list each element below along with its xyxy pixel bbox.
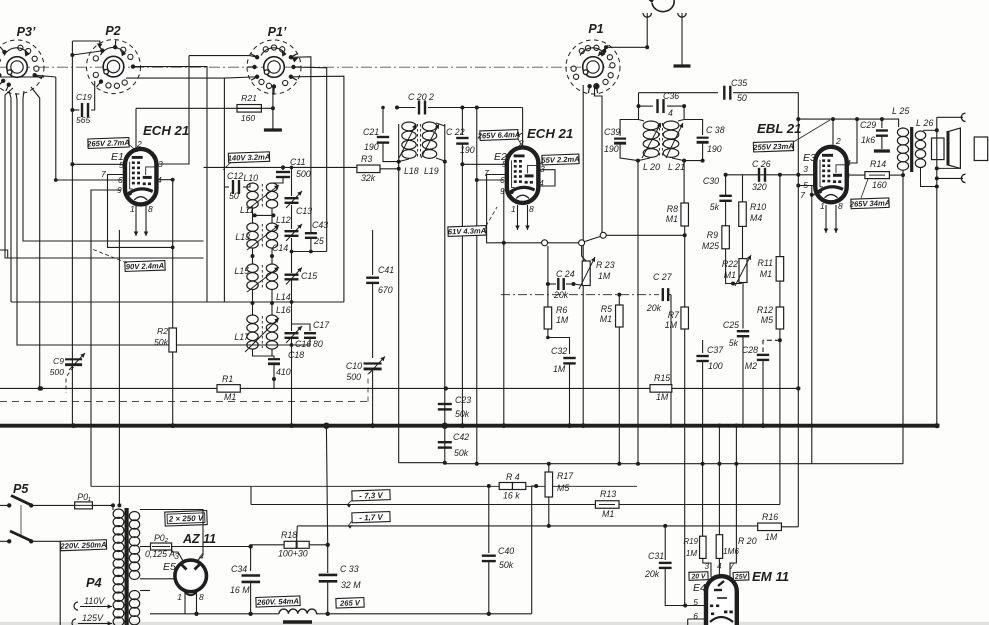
wire P2 left pin corner	[70, 53, 74, 57]
svg-text:61V 4.3mA: 61V 4.3mA	[448, 226, 487, 236]
wire P1' left pin row	[250, 56, 257, 58]
resistor R1	[217, 385, 240, 393]
capacitor C25	[742, 283, 744, 329]
left edge bracket	[0, 250, 8, 258]
svg-text:L14: L14	[276, 292, 291, 302]
wire HV top to E5 pin4	[140, 510, 203, 562]
svg-text:16 k: 16 k	[503, 491, 520, 501]
svg-text:R2: R2	[157, 326, 168, 336]
wire speaker lower lead	[937, 167, 961, 169]
capacitor C20.2	[418, 101, 420, 115]
gang link dashed line	[0, 401, 368, 403]
wire antenna to P1	[606, 46, 647, 48]
wire E2 pin6	[477, 179, 503, 181]
svg-text:E3: E3	[803, 152, 816, 164]
wire P3' fan to vertical rails	[5, 88, 204, 258]
svg-text:P1: P1	[588, 22, 603, 36]
capacitor C34	[250, 547, 252, 572]
svg-text:R13: R13	[600, 489, 616, 499]
svg-text:1M: 1M	[686, 549, 697, 558]
svg-text:3: 3	[540, 164, 545, 174]
svg-text:C43: C43	[312, 220, 328, 230]
svg-text:L12: L12	[276, 215, 291, 225]
svg-text:C30: C30	[703, 176, 719, 186]
capacitor C27	[501, 294, 659, 296]
svg-text:R17: R17	[557, 471, 574, 481]
svg-text:R12: R12	[757, 305, 773, 315]
wire E2 pin5	[462, 163, 507, 165]
chassis bus	[0, 424, 940, 428]
resistor R20	[718, 426, 720, 535]
svg-text:110V: 110V	[84, 596, 105, 606]
svg-text:L15: L15	[234, 266, 249, 276]
capacitor C35	[723, 86, 725, 100]
svg-text:E4: E4	[693, 582, 706, 594]
svg-text:C16: C16	[295, 339, 311, 349]
svg-text:C15: C15	[301, 271, 317, 281]
svg-text:R10: R10	[750, 202, 766, 212]
wire E2 pin2	[522, 108, 524, 148]
wire C27 down to bus	[664, 296, 666, 426]
bubble connector line	[504, 242, 542, 244]
svg-text:C25: C25	[723, 320, 739, 330]
svg-text:1M: 1M	[553, 364, 566, 374]
svg-text:500: 500	[50, 367, 65, 377]
tube E2 ECH21	[507, 147, 538, 203]
ground below R21	[264, 128, 282, 131]
svg-text:1M: 1M	[765, 532, 778, 542]
svg-text:C 22: C 22	[446, 127, 465, 137]
svg-text:32k: 32k	[361, 173, 376, 183]
coil stack joints 1	[252, 208, 254, 223]
svg-text:L 26: L 26	[916, 118, 933, 128]
transformer HV secondary	[129, 511, 139, 520]
svg-text:R 20: R 20	[738, 536, 757, 546]
svg-text:E5: E5	[163, 561, 176, 573]
wire x780 to R13 line	[700, 504, 780, 506]
capacitor C18	[253, 349, 275, 358]
wire C19 node vertical	[71, 41, 73, 426]
svg-text:25V: 25V	[734, 573, 749, 581]
svg-text:255V 23mA: 255V 23mA	[752, 142, 794, 152]
capacitor C26	[758, 168, 760, 182]
svg-text:3: 3	[158, 159, 163, 169]
svg-text:L16: L16	[276, 305, 291, 315]
svg-text:C35: C35	[731, 78, 747, 88]
svg-text:M1: M1	[600, 314, 612, 324]
svg-text:C36: C36	[663, 91, 679, 101]
resistor R14	[865, 172, 890, 179]
svg-text:EM 11: EM 11	[752, 569, 789, 584]
wire secondary bottom jog	[921, 167, 937, 187]
measure box 255V 23mA	[752, 141, 794, 152]
svg-text:160: 160	[241, 113, 256, 123]
svg-text:P0₂: P0₂	[154, 533, 169, 543]
resistor R5	[618, 295, 620, 305]
IF2 core dashes	[659, 123, 661, 156]
svg-text:C40: C40	[498, 546, 514, 556]
svg-text:16 M: 16 M	[230, 585, 250, 595]
svg-text:260V. 54mA: 260V. 54mA	[256, 597, 299, 607]
svg-text:C37: C37	[707, 345, 724, 355]
fuse P02 line	[140, 546, 151, 548]
svg-text:670: 670	[378, 285, 393, 295]
svg-text:R 23: R 23	[596, 260, 615, 270]
svg-text:C42: C42	[453, 432, 469, 442]
resistor R6	[544, 307, 552, 329]
heater arrows E1	[135, 205, 137, 236]
tube E3 EBL21	[815, 147, 847, 203]
tube E5 AZ11	[175, 560, 207, 592]
capacitor C43	[310, 232, 312, 233]
svg-text:ECH 21: ECH 21	[143, 123, 189, 138]
svg-text:190: 190	[707, 144, 722, 154]
transformer core	[124, 508, 128, 625]
svg-text:C39: C39	[604, 127, 620, 137]
svg-text:3: 3	[704, 562, 709, 571]
speaker	[932, 138, 945, 160]
capacitor C37	[702, 340, 704, 353]
capacitor C24	[546, 282, 550, 286]
wire osc rail x189	[157, 56, 190, 164]
resistor R15	[650, 385, 672, 393]
heater arrows E3	[825, 205, 827, 233]
capacitor C30	[725, 175, 727, 195]
resistor R2	[169, 328, 177, 352]
svg-text:90V 2.4mA: 90V 2.4mA	[126, 261, 165, 271]
svg-text:ECH 21: ECH 21	[527, 126, 573, 141]
svg-text:M1: M1	[724, 270, 736, 280]
wire C11 node line	[204, 166, 357, 168]
wire fuse to E5 pin3	[172, 547, 183, 562]
wire pin6 EM11	[688, 618, 706, 620]
svg-text:P0₁: P0₁	[77, 492, 91, 502]
svg-text:8: 8	[838, 201, 843, 211]
IF2 bottom joints	[636, 159, 640, 163]
measure box 265V 2.7mA	[86, 138, 130, 149]
resistor R8	[683, 161, 685, 203]
svg-text:C 27: C 27	[653, 272, 673, 282]
svg-text:125V: 125V	[82, 613, 104, 623]
capacitor C9 variable	[65, 358, 82, 360]
wire heater-bias line y486	[91, 485, 637, 487]
svg-text:5: 5	[119, 160, 124, 170]
IF1 core dashes	[417, 124, 419, 157]
resistor R12	[779, 281, 781, 307]
svg-text:P2: P2	[105, 24, 120, 38]
svg-text:L17: L17	[234, 332, 250, 342]
svg-text:M1: M1	[602, 509, 614, 519]
svg-text:C29: C29	[860, 120, 876, 130]
svg-text:1M: 1M	[656, 392, 669, 402]
measure box 90V 2.4mA	[125, 261, 165, 272]
svg-text:50k: 50k	[454, 448, 469, 458]
measure box 140V 3.2mA	[228, 152, 271, 163]
B+ line to output transformer	[798, 118, 882, 120]
svg-text:C 26: C 26	[752, 159, 771, 169]
svg-text:500: 500	[296, 169, 311, 179]
wire E2 pin3 pin4 stubs	[538, 170, 555, 186]
wire mains lower	[31, 541, 60, 625]
coil L21	[678, 120, 684, 122]
svg-text:190: 190	[604, 144, 619, 154]
svg-text:R11: R11	[758, 258, 774, 268]
box 20V	[689, 572, 708, 581]
wire E1 plate up-over	[135, 108, 137, 148]
svg-text:1M: 1M	[556, 315, 569, 325]
wire R6 branch	[547, 246, 549, 307]
terminal hook lower	[961, 174, 965, 182]
capacitor C19	[72, 109, 79, 111]
svg-text:C9: C9	[53, 356, 64, 366]
svg-text:R1: R1	[222, 374, 233, 384]
resistor R19	[702, 464, 704, 537]
svg-text:C13: C13	[296, 206, 312, 216]
AVC line	[0, 387, 217, 389]
wire x327 vertical	[326, 426, 327, 545]
wire P3' pin down to E1 grid	[56, 77, 121, 180]
box 25V	[733, 572, 749, 581]
svg-text:P1’: P1’	[268, 25, 287, 39]
svg-text:C31: C31	[648, 551, 664, 561]
svg-text:140V 3.2mA: 140V 3.2mA	[228, 152, 271, 162]
capacitor C31	[664, 526, 666, 560]
svg-text:R18: R18	[281, 530, 297, 540]
wire E1 pin4	[157, 180, 173, 426]
output transformer core	[910, 127, 913, 172]
svg-text:R7: R7	[668, 310, 680, 320]
svg-text:7: 7	[101, 169, 106, 179]
svg-text:M5: M5	[761, 315, 773, 325]
terminal hook top	[961, 113, 965, 121]
svg-text:50: 50	[737, 93, 747, 103]
svg-text:265V 34mA: 265V 34mA	[849, 198, 891, 208]
heater arrows E2	[517, 205, 519, 230]
wire HV bottom	[140, 572, 174, 579]
svg-text:2 × 250 V: 2 × 250 V	[168, 514, 204, 524]
wire L18 vertical down	[398, 169, 400, 463]
svg-text:100+30: 100+30	[278, 549, 308, 559]
svg-text:8: 8	[529, 204, 534, 214]
svg-text:265V 2.7mA: 265V 2.7mA	[86, 138, 130, 149]
svg-text:M5: M5	[557, 483, 569, 493]
svg-text:100: 100	[708, 361, 723, 371]
capacitor C41	[372, 230, 374, 275]
capacitor C17	[292, 324, 311, 331]
wire E3 pin2	[832, 119, 834, 147]
svg-text:M2: M2	[745, 361, 757, 371]
resistor R3	[357, 165, 380, 173]
svg-text:1: 1	[177, 592, 182, 602]
svg-text:410: 410	[276, 367, 291, 377]
svg-text:C 20 2: C 20 2	[408, 92, 434, 102]
wire E5 cathode down	[184, 592, 186, 614]
transformer heater secondary	[129, 591, 139, 600]
svg-text:EBL 21: EBL 21	[757, 121, 801, 136]
svg-text:C19: C19	[76, 92, 92, 102]
wire C26 line pin3	[726, 174, 816, 176]
svg-text:C34: C34	[231, 564, 247, 574]
capacitor C39	[620, 120, 638, 136]
capacitor C10 variable	[364, 362, 382, 364]
wire R18 tap to -1.7V line	[296, 526, 299, 541]
wire P1' right pins to verticals	[291, 57, 311, 232]
coil L20	[639, 120, 645, 122]
svg-text:50k: 50k	[154, 337, 169, 347]
svg-text:L18: L18	[404, 166, 419, 176]
wire E3 pin4	[847, 119, 857, 163]
box 265V	[336, 598, 364, 608]
svg-text:R14: R14	[870, 159, 886, 169]
svg-text:R21: R21	[241, 93, 257, 103]
capacitor C15 trimmer	[285, 274, 299, 276]
svg-text:4: 4	[199, 551, 204, 561]
svg-text:220V. 250mA: 220V. 250mA	[59, 540, 106, 551]
wire x780 upper corner	[779, 464, 781, 505]
tube E4 EM11	[706, 576, 737, 625]
svg-text:5k: 5k	[710, 202, 720, 212]
svg-text:P5: P5	[13, 482, 29, 496]
wire E2 pin9	[502, 190, 505, 424]
capacitor C33	[319, 574, 338, 577]
coil stack joints 3	[252, 290, 254, 315]
svg-text:8: 8	[199, 592, 204, 602]
rotary switch P2	[87, 40, 141, 94]
svg-text:265V 6.4mA: 265V 6.4mA	[477, 130, 521, 141]
wire E1 pin7	[108, 175, 173, 248]
measure box 55V 2.2mA	[541, 154, 580, 165]
svg-text:C10: C10	[346, 361, 362, 371]
svg-text:C12: C12	[227, 171, 243, 181]
antenna terminal 2	[678, 13, 686, 17]
svg-text:C18: C18	[288, 350, 304, 360]
coil L19	[422, 122, 436, 131]
resistor R11	[779, 175, 781, 257]
wire P2 lower pin rail	[126, 78, 224, 302]
svg-text:4: 4	[717, 562, 722, 571]
capacitor C28	[778, 338, 782, 342]
wire left edge to P3' pin	[0, 76, 44, 78]
bias line -7.3V	[251, 504, 595, 506]
capacitor C13 trimmer	[291, 167, 293, 196]
rotary switch P1	[566, 40, 620, 94]
svg-text:R15: R15	[654, 373, 670, 383]
capacitor C40 loop	[488, 486, 490, 553]
resistor R22 variable	[739, 259, 747, 283]
svg-text:R9: R9	[707, 230, 718, 240]
wire E3 pin5	[798, 185, 815, 187]
resistor R4	[487, 484, 491, 488]
svg-text:7: 7	[800, 190, 805, 200]
svg-text:L 25: L 25	[892, 106, 910, 116]
svg-text:L 20: L 20	[643, 162, 660, 172]
wire E2 pin7	[487, 175, 507, 243]
svg-text:C11: C11	[290, 157, 306, 167]
svg-text:6: 6	[845, 171, 850, 181]
svg-text:265 V: 265 V	[339, 598, 361, 608]
svg-text:4: 4	[668, 108, 673, 118]
svg-text:C 24: C 24	[556, 269, 575, 279]
capacitor C36	[656, 99, 658, 113]
resistor R13	[595, 501, 619, 509]
box 220V 250mA	[59, 540, 106, 551]
wire L19 bottom	[444, 124, 446, 464]
svg-text:2: 2	[136, 139, 142, 149]
svg-text:1: 1	[820, 201, 825, 211]
svg-text:C14: C14	[272, 243, 288, 253]
wire C36 line	[638, 93, 640, 120]
svg-text:R22: R22	[722, 259, 738, 269]
svg-text:C 33: C 33	[340, 564, 359, 574]
measure box 61V 4.3mA	[448, 226, 487, 237]
svg-text:32 M: 32 M	[341, 580, 361, 590]
svg-text:3: 3	[803, 164, 808, 174]
svg-text:2: 2	[835, 136, 841, 146]
svg-text:80: 80	[313, 339, 323, 349]
svg-text:565: 565	[76, 115, 91, 125]
svg-text:50: 50	[229, 191, 239, 201]
coil pair L10 L11	[247, 183, 258, 191]
svg-text:500: 500	[346, 372, 361, 382]
svg-text:M25: M25	[702, 241, 719, 251]
svg-text:55V 2.2mA: 55V 2.2mA	[541, 155, 580, 165]
svg-text:L19: L19	[424, 166, 439, 176]
bottom rail	[150, 613, 279, 615]
svg-text:C23: C23	[455, 395, 471, 405]
antenna terminal 1	[643, 13, 651, 17]
wire hook2	[937, 177, 963, 179]
box 2x250V	[165, 511, 207, 526]
svg-text:1: 1	[130, 204, 135, 214]
svg-text:AZ 11: AZ 11	[182, 532, 216, 546]
measure box 265V 6.4mA	[477, 130, 521, 141]
wire C35 line	[639, 92, 719, 94]
svg-text:M1: M1	[666, 214, 678, 224]
wire trimmer joints	[291, 238, 293, 273]
resistor R16	[758, 523, 782, 531]
svg-text:R 4: R 4	[506, 472, 520, 482]
svg-text:L10: L10	[243, 173, 258, 183]
svg-text:8: 8	[148, 204, 153, 214]
wire pin7 EM11	[730, 426, 736, 577]
svg-text:R6: R6	[556, 305, 567, 315]
bias line -1.7V	[297, 525, 757, 527]
svg-text:- 7,3 V: - 7,3 V	[359, 491, 384, 501]
resistor R23 variable	[582, 246, 586, 261]
wire E1 pin5 grid line	[72, 163, 125, 165]
svg-text:5: 5	[693, 597, 698, 607]
svg-text:R5: R5	[601, 304, 612, 314]
svg-text:P4: P4	[86, 575, 102, 590]
svg-text:190: 190	[364, 142, 379, 152]
svg-text:R19: R19	[683, 537, 698, 546]
capacitor C29	[881, 119, 883, 128]
svg-text:C32: C32	[551, 346, 567, 356]
svg-text:L 21: L 21	[668, 162, 685, 172]
capacitor C21	[382, 108, 384, 134]
svg-text:C28: C28	[742, 345, 758, 355]
svg-text:20k: 20k	[646, 303, 662, 313]
wire E3 pin6 to R14	[847, 174, 865, 176]
wire P1 bottom pins down	[582, 85, 584, 426]
svg-text:L13: L13	[235, 232, 250, 242]
ground antenna	[674, 64, 691, 67]
svg-text:7: 7	[729, 562, 734, 571]
svg-text:C17: C17	[313, 320, 330, 330]
fuse P01	[31, 504, 74, 506]
wire x477 rail	[476, 108, 478, 464]
box -1.7V	[352, 512, 390, 523]
